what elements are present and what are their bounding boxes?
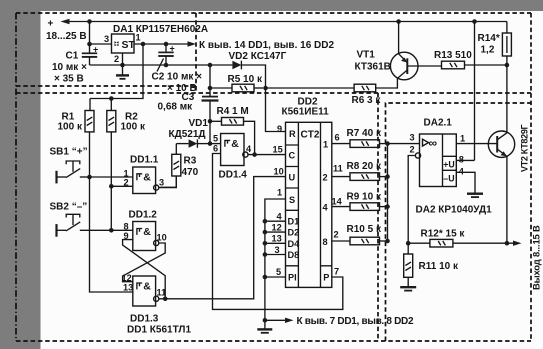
svg-text:+: +	[48, 19, 54, 30]
dashed divider vertical x196	[195, 13, 197, 93]
diode VD1	[169, 118, 211, 148]
svg-text:SB1 “+”: SB1 “+”	[50, 147, 88, 158]
resistor R4	[210, 106, 255, 155]
svg-text:DA2.1: DA2.1	[424, 118, 453, 129]
node dot PI	[263, 275, 268, 280]
svg-text:6: 6	[335, 133, 340, 143]
svg-text:4: 4	[323, 203, 329, 213]
svg-text:&: &	[231, 138, 239, 150]
svg-text:CT2: CT2	[301, 130, 320, 141]
svg-text:D1: D1	[288, 217, 300, 227]
wire: VT2 emitter to output	[506, 156, 508, 243]
ground under DD2	[257, 329, 272, 332]
svg-text:5: 5	[213, 134, 218, 144]
wire: VT1 base to R13	[407, 65, 441, 67]
node dot pin1/+9V branch	[141, 42, 146, 47]
resistor R10	[332, 224, 388, 245]
resistor R8	[332, 161, 388, 180]
resistor R11	[404, 243, 459, 286]
svg-text:100 к: 100 к	[121, 122, 146, 133]
svg-text:DA1 КР1157ЕН602А: DA1 КР1157ЕН602А	[113, 24, 208, 35]
dashed section border: outer bottom	[16, 340, 531, 342]
svg-text:К выв. 7 DD1, выв. 8 DD2: К выв. 7 DD1, выв. 8 DD2	[297, 316, 414, 327]
svg-text:C1: C1	[66, 51, 79, 62]
svg-text:U: U	[289, 173, 296, 183]
node dot SB2/DD1.2 pin8	[109, 228, 114, 233]
wire: DAC bus	[387, 144, 389, 241]
svg-text:470: 470	[182, 167, 199, 178]
wire: DD1.3 out to DD2 U input	[165, 177, 285, 299]
resistor R12	[408, 229, 507, 248]
transistor VT1	[355, 22, 419, 80]
svg-text:2: 2	[323, 173, 328, 183]
node dot DA1 pin2/gnd	[120, 63, 125, 68]
wire: DA2 pin8 supply	[456, 159, 474, 161]
svg-text:∞: ∞	[429, 136, 438, 150]
svg-text:КД521Д: КД521Д	[169, 129, 206, 140]
wire: DD1.4 output to DD2 C input	[248, 154, 286, 156]
svg-text:3: 3	[104, 34, 109, 44]
resistor R6	[266, 78, 398, 106]
wire: PI stub	[265, 276, 286, 278]
node dot DD1.3 output	[163, 297, 168, 302]
svg-text:SB2 “–”: SB2 “–”	[50, 202, 88, 213]
svg-text:2: 2	[124, 178, 129, 188]
wire: VT2 collector	[506, 65, 508, 133]
node dot DD1.4 input	[208, 141, 213, 146]
wire: DA1 pin2 drop	[122, 53, 124, 75]
node: arrow to pin 7 DD1, pin 8 DD2	[265, 316, 414, 327]
node dot D2	[263, 230, 268, 235]
voltage regulator DA1	[104, 24, 208, 64]
svg-text:DD1.3: DD1.3	[130, 314, 159, 325]
svg-text:VT2 КТ829Г: VT2 КТ829Г	[520, 124, 530, 172]
svg-text:R4 1 М: R4 1 М	[217, 106, 249, 117]
wire: R2 line down	[110, 132, 112, 230]
dashed divider under power section	[16, 85, 196, 87]
node dot D4	[263, 241, 268, 246]
svg-text:&: &	[143, 281, 151, 293]
svg-text:3: 3	[159, 178, 164, 188]
svg-text:ST: ST	[122, 39, 136, 51]
wire: +9V feed to R1 R2	[90, 44, 143, 99]
wire: D8 stub	[265, 254, 286, 256]
svg-text:R11 10 к: R11 10 к	[419, 261, 459, 272]
svg-text:7: 7	[334, 267, 339, 277]
logic gate DD1.1	[124, 155, 165, 194]
wire: SB1 to DD1.1 pin1	[90, 176, 133, 178]
transistor VT2	[488, 124, 529, 172]
svg-text:R12* 15 к: R12* 15 к	[421, 229, 466, 240]
node dot bus R8	[385, 174, 390, 179]
svg-text:КТ361В: КТ361В	[355, 62, 391, 73]
wire: latch cross coupling B (DD1.3 out to DD1.2 pin9)	[123, 240, 166, 299]
node dot feedback/R11	[406, 241, 411, 246]
svg-text:2: 2	[334, 230, 339, 240]
svg-text:D4: D4	[288, 239, 301, 249]
dashed divider full width	[16, 92, 531, 94]
resistor R5	[210, 74, 263, 92]
svg-text:D8: D8	[288, 250, 300, 260]
svg-text:3: 3	[275, 245, 280, 255]
svg-text:VD1: VD1	[189, 118, 209, 129]
wire: S D1-D8 PI common line	[265, 199, 286, 329]
wire: zener node down to DD2 R input	[266, 88, 286, 132]
svg-text:× 35 В: × 35 В	[54, 74, 84, 85]
node: +18..25V input arrow	[46, 19, 90, 43]
svg-text:6: 6	[213, 144, 218, 154]
node dot rail/DA2 supply	[472, 19, 477, 24]
node dot bus R9	[385, 204, 390, 209]
wire: ground rail	[90, 64, 233, 66]
svg-text:R5 10 к: R5 10 к	[228, 74, 263, 85]
svg-text:R8 20 к: R8 20 к	[347, 161, 382, 172]
node dot D1	[263, 219, 268, 224]
svg-text:0,68 мк: 0,68 мк	[158, 102, 194, 113]
svg-text:DD1.1: DD1.1	[130, 155, 159, 166]
svg-text:8: 8	[124, 222, 129, 232]
svg-text:1: 1	[323, 140, 328, 150]
dashed section border: outer top	[16, 12, 531, 14]
counter DD2	[272, 97, 343, 288]
svg-text:D2: D2	[288, 228, 300, 238]
svg-text:11: 11	[333, 164, 343, 174]
wire: latch cross coupling A (DD1.2 out to DD1.3 pin12)	[123, 243, 166, 282]
wire: R2 top stub	[110, 99, 112, 111]
ground under DA1	[116, 75, 129, 78]
svg-text:R3: R3	[184, 156, 197, 167]
node dot rail/VT1 emitter	[396, 19, 401, 24]
svg-text:1,2: 1,2	[481, 45, 495, 56]
svg-text:R13 510: R13 510	[434, 50, 472, 61]
node dot C2 bottom	[164, 63, 169, 68]
svg-text:4: 4	[459, 167, 465, 177]
svg-text:12: 12	[272, 223, 282, 233]
svg-text:5: 5	[276, 267, 281, 277]
resistor R1	[58, 99, 95, 133]
node dot output	[505, 241, 510, 246]
svg-text:10: 10	[157, 233, 167, 243]
ground under DA2 pin4	[467, 194, 483, 197]
zener diode VD2	[229, 51, 287, 88]
ground under R11	[400, 287, 416, 290]
svg-text:–U: –U	[443, 174, 454, 184]
svg-text:8: 8	[459, 155, 464, 165]
resistor R3	[160, 144, 198, 188]
svg-text:1: 1	[460, 134, 465, 144]
dashed divider vertical x378	[377, 93, 379, 341]
svg-text:DA2 КР1040УД1: DA2 КР1040УД1	[416, 205, 493, 216]
resistor R9	[332, 192, 388, 211]
wire: to DD1.2 pin8	[111, 229, 133, 231]
svg-text:R9 10 к: R9 10 к	[347, 192, 382, 203]
svg-text:+: +	[93, 45, 98, 55]
wire: DD1.4 pin5	[210, 143, 221, 145]
resistor R7	[332, 128, 388, 147]
node dot gnd arrow	[263, 318, 268, 323]
svg-text:+: +	[170, 44, 175, 54]
wire: D4 stub	[265, 242, 286, 244]
svg-text:9: 9	[277, 124, 282, 134]
push button SB1	[50, 147, 90, 184]
capacitor C1	[52, 44, 98, 85]
node: arrow to pins 14 DD1, 16 DD2	[188, 40, 335, 51]
wire: D2 stub	[265, 231, 286, 233]
dashed section border: outer right	[530, 13, 532, 341]
node dot R13/R14/VT2	[505, 63, 510, 68]
svg-text:R14*: R14*	[478, 33, 500, 44]
svg-text:1: 1	[277, 188, 282, 198]
svg-text:К561ИЕ11: К561ИЕ11	[282, 107, 330, 118]
logic gate DD1.4	[213, 134, 252, 181]
svg-text:P: P	[323, 273, 329, 283]
node: output arrow	[507, 241, 522, 246]
svg-text:DD1.2: DD1.2	[129, 210, 158, 221]
node dot C1 top	[87, 42, 92, 47]
svg-text:&: &	[143, 172, 151, 184]
node dot R5 right	[263, 86, 268, 91]
svg-text:2: 2	[114, 54, 119, 64]
node dot D8	[263, 252, 268, 257]
svg-text:C2 10 мк ×: C2 10 мк ×	[152, 72, 203, 83]
wire: D1 stub	[265, 220, 286, 222]
node dot rail/C1	[87, 19, 92, 24]
node: DA2 pin2 inverting input bubble	[415, 153, 420, 158]
svg-text:+U: +U	[443, 160, 455, 170]
svg-text:18...25 В: 18...25 В	[46, 31, 87, 42]
resistor R13	[434, 50, 507, 69]
wire: bus to DA2 pin3	[388, 143, 420, 145]
svg-text:15: 15	[273, 145, 283, 155]
wire: DA2 +supply drop	[474, 22, 476, 161]
op-amp DA2.1	[410, 118, 493, 216]
wire: R1 line down to DD1.3 pin13	[90, 132, 133, 292]
svg-text:13: 13	[123, 283, 133, 293]
wire: DA2 pin2 feedback	[408, 156, 415, 244]
wire: DA2 output to VT2 base	[456, 143, 497, 145]
svg-text:DD1.4: DD1.4	[219, 170, 248, 181]
node dot R2 top	[109, 96, 114, 101]
svg-text:VD2 КС147Г: VD2 КС147Г	[229, 51, 287, 62]
wire: DA2 pin4 to ground	[456, 172, 475, 193]
logic gate DD1.3	[122, 273, 192, 336]
svg-text:R6 3 к: R6 3 к	[352, 95, 382, 106]
wire: +supply top rail	[90, 21, 508, 23]
svg-text:2: 2	[410, 145, 415, 155]
svg-text:R7 40 к: R7 40 к	[347, 128, 382, 139]
svg-text:R: R	[289, 129, 296, 139]
node dot C2 top	[164, 42, 169, 47]
wire: DA1 pin1 output	[134, 43, 189, 45]
svg-text:14: 14	[332, 197, 343, 207]
node dot R2/DD1.1 pin2	[109, 184, 114, 189]
capacitor C3	[158, 65, 219, 144]
svg-text:C: C	[289, 151, 296, 161]
svg-text:3: 3	[410, 133, 415, 143]
push button SB2	[50, 202, 112, 237]
svg-text:VT1: VT1	[357, 50, 376, 61]
wire: DD1.3 output	[159, 298, 165, 300]
svg-text:1: 1	[136, 33, 141, 43]
svg-text:10: 10	[274, 167, 284, 177]
wire: DD1.1 output to R3	[159, 176, 177, 188]
svg-text:4: 4	[277, 212, 283, 222]
svg-text:R10 5 к: R10 5 к	[347, 224, 382, 235]
svg-text:100 к: 100 к	[58, 122, 83, 133]
wire: input drop to DA1 pin3	[90, 22, 112, 45]
svg-text:Выход 8...15 В: Выход 8...15 В	[531, 225, 542, 290]
capacitor C2	[152, 44, 203, 95]
node dot bus R10	[385, 239, 390, 244]
logic gate DD1.2	[124, 210, 167, 251]
svg-text:&: &	[143, 226, 151, 238]
node dot bus R7	[385, 141, 390, 146]
node dot R4 left	[208, 119, 213, 124]
dash-dot section border: outer left	[15, 13, 17, 341]
svg-text:К выв. 14 DD1, выв. 16 DD2: К выв. 14 DD1, выв. 16 DD2	[199, 40, 334, 51]
node dot SB1/R1	[87, 175, 92, 180]
wire: to DD1.1 pin2	[111, 185, 133, 187]
svg-text:13: 13	[272, 234, 282, 244]
node dot R5 left	[208, 86, 213, 91]
node dot VD2/C3 bus	[208, 63, 213, 68]
svg-text:10 мк ×: 10 мк ×	[52, 62, 87, 73]
svg-text:8: 8	[323, 237, 328, 247]
node dot DD1.4 out / R4	[252, 152, 257, 157]
resistor R2	[107, 111, 146, 133]
wire: DD2 P output loop to DD1.4 pin6	[213, 154, 343, 310]
svg-text:DD1 К561ТЛ1: DD1 К561ТЛ1	[127, 325, 191, 336]
svg-text:PI: PI	[288, 273, 297, 283]
dashed DA2 section box left+top	[386, 103, 532, 341]
svg-text:S: S	[289, 195, 295, 205]
svg-text:4: 4	[246, 144, 252, 154]
resistor R14	[478, 22, 512, 66]
